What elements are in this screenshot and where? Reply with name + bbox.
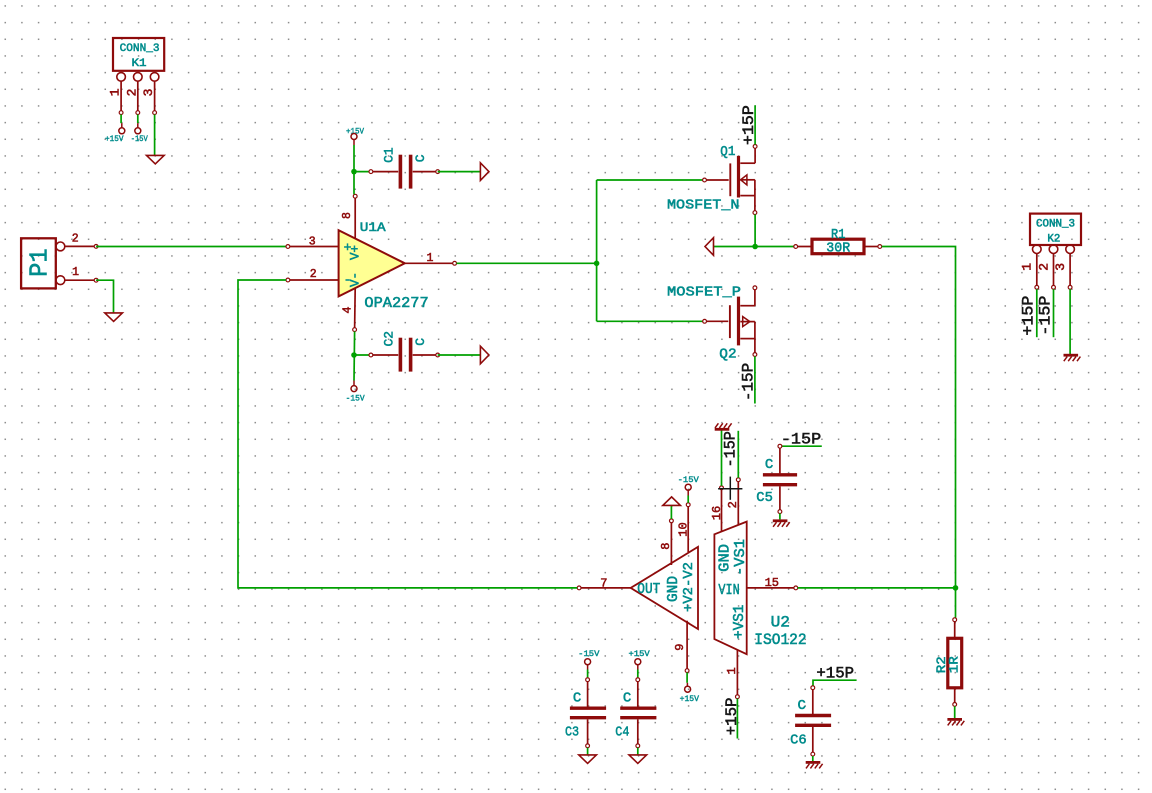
svg-text:C: C [573, 691, 581, 707]
U2 pin 16 [710, 486, 724, 532]
P1 pin 2 [65, 232, 98, 248]
svg-text:C6: C6 [790, 733, 807, 749]
wire U2 pin10 to -15V [687, 496, 689, 503]
power +15V at K1 [105, 123, 125, 144]
capacitor C5 [763, 444, 797, 513]
wire U2 pin1 stub [736, 699, 738, 739]
wire +15V to C4 [637, 670, 639, 678]
wire junction to C1 [354, 171, 371, 173]
svg-text:-15V: -15V [678, 476, 699, 485]
wire K1 pin3 to ground [154, 115, 156, 156]
wire U2 pin2 stub [737, 431, 739, 478]
wire C5 to power ground [779, 514, 781, 520]
svg-text:OUT: OUT [637, 581, 660, 598]
svg-text:+VS1: +VS1 [731, 605, 748, 639]
svg-text:8: 8 [659, 543, 673, 550]
ground right of C1 [480, 163, 489, 181]
power ground below C5 [773, 519, 788, 522]
svg-text:+V2-V2: +V2-V2 [681, 562, 697, 612]
svg-text:C: C [413, 338, 428, 346]
U1A pin 2 [286, 268, 339, 282]
svg-text:3: 3 [1053, 263, 1068, 271]
svg-text:MOSFET_N: MOSFET_N [667, 198, 740, 214]
U2 pin 1 [725, 650, 739, 699]
cross marker at U2 pin2 wire [718, 477, 742, 500]
wire C3 to ground [587, 748, 589, 755]
svg-text:-VS1: -VS1 [732, 539, 749, 576]
svg-text:2: 2 [310, 268, 317, 281]
svg-text:C: C [623, 691, 631, 707]
U2 pin 2 [726, 478, 740, 525]
capacitor C1 [369, 155, 440, 189]
connector P1 [21, 238, 65, 288]
junction at right rail [953, 585, 959, 591]
K1 pin 1 [107, 88, 123, 114]
svg-text:+15V: +15V [346, 127, 364, 136]
svg-text:+15P: +15P [723, 698, 741, 736]
wire U2 pin15 to right rail [798, 587, 956, 589]
power +15V at U2 pin9 [680, 683, 700, 704]
wire R1 to right rail [882, 247, 956, 618]
capacitor C4 [620, 678, 656, 748]
wire Q1 drain up [754, 105, 756, 144]
U2 input trapezoid [714, 522, 749, 655]
svg-text:30R: 30R [826, 241, 850, 257]
ground arrow left of output node [705, 238, 714, 256]
svg-text:15: 15 [765, 576, 779, 590]
svg-text:4: 4 [341, 306, 354, 313]
svg-text:3: 3 [141, 89, 156, 97]
U2 pin 7 OUT [577, 576, 631, 590]
svg-text:ISO122: ISO122 [754, 631, 806, 649]
capacitor C2 [369, 338, 440, 372]
ground arrow above U2 pin8 [663, 497, 681, 506]
svg-text:P1: P1 [25, 248, 55, 277]
svg-text:C: C [413, 154, 428, 162]
wire U2 pin8 to ground arrow [670, 505, 672, 519]
power ground GNDPWR at K2 [1064, 354, 1079, 357]
capacitor C3 [570, 678, 606, 748]
svg-text:7: 7 [600, 576, 607, 590]
connector K1 [113, 38, 164, 113]
wire C4 to ground [637, 748, 639, 755]
svg-text:-15P: -15P [722, 431, 740, 467]
U2 output triangle [631, 547, 698, 629]
svg-text:1: 1 [107, 88, 122, 96]
wire R2 to power ground [954, 706, 956, 718]
wire K1 pin1 to +15V [120, 115, 122, 124]
wire U1A pin4 to -15V [353, 332, 356, 381]
svg-text:10: 10 [676, 522, 690, 536]
svg-text:+15P: +15P [1019, 296, 1037, 336]
wire -15V to C3 [587, 670, 589, 678]
svg-text:C3: C3 [565, 725, 579, 741]
U2 pin 15 VIN [747, 576, 798, 590]
wire U2 pin9 to +15V [686, 673, 688, 683]
ground at K1 [147, 155, 165, 164]
wire K2 pin2 [1053, 289, 1055, 337]
wire C2 to ground arrow [438, 354, 481, 356]
svg-text:2: 2 [726, 501, 740, 508]
svg-text:9: 9 [673, 644, 687, 651]
svg-text:Q1: Q1 [720, 144, 735, 160]
svg-text:C1: C1 [381, 147, 396, 163]
svg-text:+15P: +15P [740, 105, 758, 145]
svg-text:Q2: Q2 [719, 347, 736, 363]
svg-text:MOSFET_P: MOSFET_P [667, 284, 741, 300]
svg-text:8: 8 [341, 212, 354, 219]
svg-text:C5: C5 [756, 490, 773, 506]
svg-text:1R: 1R [946, 656, 961, 673]
wire C6 to power ground [812, 756, 814, 761]
wire C6 top stub [813, 680, 857, 688]
K2 pin 3 [1053, 263, 1072, 289]
wire U1A output to gates node [457, 262, 597, 264]
svg-text:C4: C4 [615, 725, 629, 741]
wire to Q1 gate [597, 179, 705, 181]
svg-text:K1: K1 [132, 58, 147, 70]
svg-text:GND: GND [665, 576, 682, 602]
svg-text:VIN: VIN [718, 582, 739, 599]
svg-text:2: 2 [72, 232, 79, 245]
wire U2 pin16 to power ground [721, 430, 723, 486]
svg-text:+15V: +15V [105, 135, 124, 144]
svg-text:OPA2277: OPA2277 [364, 296, 428, 312]
U2 pin 9 [673, 621, 689, 673]
transistor Q2 [703, 286, 757, 357]
K1 pin 2 [124, 89, 139, 115]
K1 pin 3 [141, 89, 157, 115]
power +15V at C4 [629, 650, 650, 670]
wire gates vertical [596, 180, 598, 321]
capacitor C6 [795, 686, 831, 756]
power ground above U2 pin16 [715, 428, 730, 431]
svg-text:1: 1 [72, 266, 79, 279]
ground below C3 [579, 755, 597, 764]
power ground below C6 [806, 761, 821, 764]
power -15V at K1 [131, 123, 148, 144]
junction at C2 tap [351, 352, 357, 358]
power +15V above U1A [346, 127, 364, 145]
svg-text:CONN_3: CONN_3 [120, 43, 160, 55]
wire P1 pin1 to ground [96, 280, 113, 313]
resistor R2 [948, 618, 962, 707]
connector K2 [1030, 214, 1081, 288]
U1A pin 4 [341, 288, 356, 332]
ground right of C2 [480, 346, 489, 364]
svg-text:+15V: +15V [629, 650, 650, 659]
ground at P1 [105, 313, 123, 322]
transistor Q1 [703, 145, 757, 215]
U2 pin 8 [659, 519, 674, 565]
wire K1 pin2 to -15V [137, 115, 139, 124]
op-amp U1A body [339, 230, 405, 296]
junction at output node [752, 244, 758, 250]
svg-text:2: 2 [1036, 263, 1051, 271]
wire P1 pin2 to U1A pin3 [96, 246, 288, 248]
wire +15V down to U1A pin8 [353, 145, 355, 194]
svg-text:U2: U2 [771, 613, 790, 631]
power ground below R2 [947, 718, 962, 721]
svg-text:CONN_3: CONN_3 [1036, 218, 1075, 230]
wire Q1 source down to node [754, 215, 756, 247]
svg-text:1: 1 [725, 667, 739, 674]
U2 pin 10 [676, 503, 690, 552]
svg-text:1: 1 [426, 252, 433, 265]
svg-text:GND: GND [716, 544, 733, 572]
wire U2 pin7 to feedback [238, 280, 577, 588]
K2 pin 2 [1036, 263, 1055, 289]
svg-text:3: 3 [309, 235, 316, 248]
svg-text:-15V: -15V [131, 135, 148, 144]
svg-text:K2: K2 [1047, 233, 1060, 245]
svg-text:C2: C2 [381, 331, 396, 347]
wire C1 to ground arrow [438, 171, 481, 173]
wire output node horizontal [714, 246, 796, 248]
ground below C4 [629, 755, 647, 764]
wire to Q2 gate [597, 320, 705, 322]
power -15V below U1A [346, 381, 365, 404]
svg-text:-15V: -15V [578, 650, 599, 659]
svg-text:-15V: -15V [346, 395, 365, 404]
svg-text:C: C [765, 457, 773, 473]
P1 pin 1 [65, 266, 98, 282]
junction at gates node [594, 261, 600, 267]
junction at C1 tap [351, 169, 357, 175]
svg-text:16: 16 [710, 506, 724, 520]
wire Q2 drain down [754, 356, 756, 403]
U1A pin 1 [405, 252, 457, 265]
svg-text:C: C [798, 698, 806, 714]
svg-text:U1A: U1A [360, 221, 386, 235]
svg-text:+15V: +15V [680, 695, 700, 704]
svg-text:-15P: -15P [1036, 296, 1054, 336]
wire junction to C2 [354, 354, 371, 356]
svg-text:V-: V- [349, 272, 363, 287]
K2 pin 1 [1020, 263, 1039, 289]
resistor R1 [794, 239, 882, 254]
svg-text:-15P: -15P [740, 363, 758, 401]
U1A pin 8 [341, 194, 357, 239]
power -15V at C3 [578, 650, 599, 670]
svg-text:V+: V+ [349, 245, 363, 260]
power -15V at U2 pin10 [678, 476, 699, 496]
wire K2 pin3 to ground [1069, 289, 1071, 354]
svg-text:1: 1 [1020, 263, 1035, 271]
U1A pin 3 [286, 235, 339, 248]
wire C5 top stub [782, 445, 822, 447]
svg-text:2: 2 [124, 89, 139, 97]
wire K2 pin1 [1036, 289, 1038, 337]
